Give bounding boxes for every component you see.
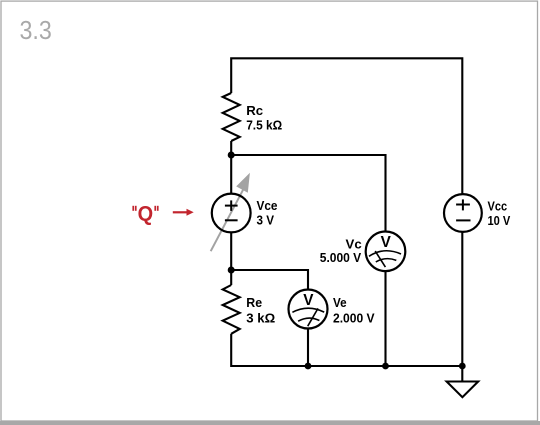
svg-text:Vce: Vce — [257, 198, 278, 213]
svg-text:10 V: 10 V — [488, 213, 511, 228]
svg-text:7.5 kΩ: 7.5 kΩ — [246, 117, 282, 132]
svg-text:2.000 V: 2.000 V — [333, 311, 375, 326]
svg-text:3 kΩ: 3 kΩ — [246, 311, 275, 326]
svg-text:Ve: Ve — [333, 295, 347, 310]
svg-text:V: V — [303, 292, 314, 309]
svg-text:3 V: 3 V — [257, 213, 275, 228]
svg-text:V: V — [381, 234, 392, 251]
svg-text:Q: Q — [138, 203, 154, 226]
svg-text:3.3: 3.3 — [20, 15, 52, 45]
svg-text:Rc: Rc — [246, 103, 263, 118]
svg-text:Re: Re — [246, 295, 262, 310]
svg-text:5.000 V: 5.000 V — [320, 250, 362, 265]
svg-text:Vcc: Vcc — [488, 198, 508, 213]
